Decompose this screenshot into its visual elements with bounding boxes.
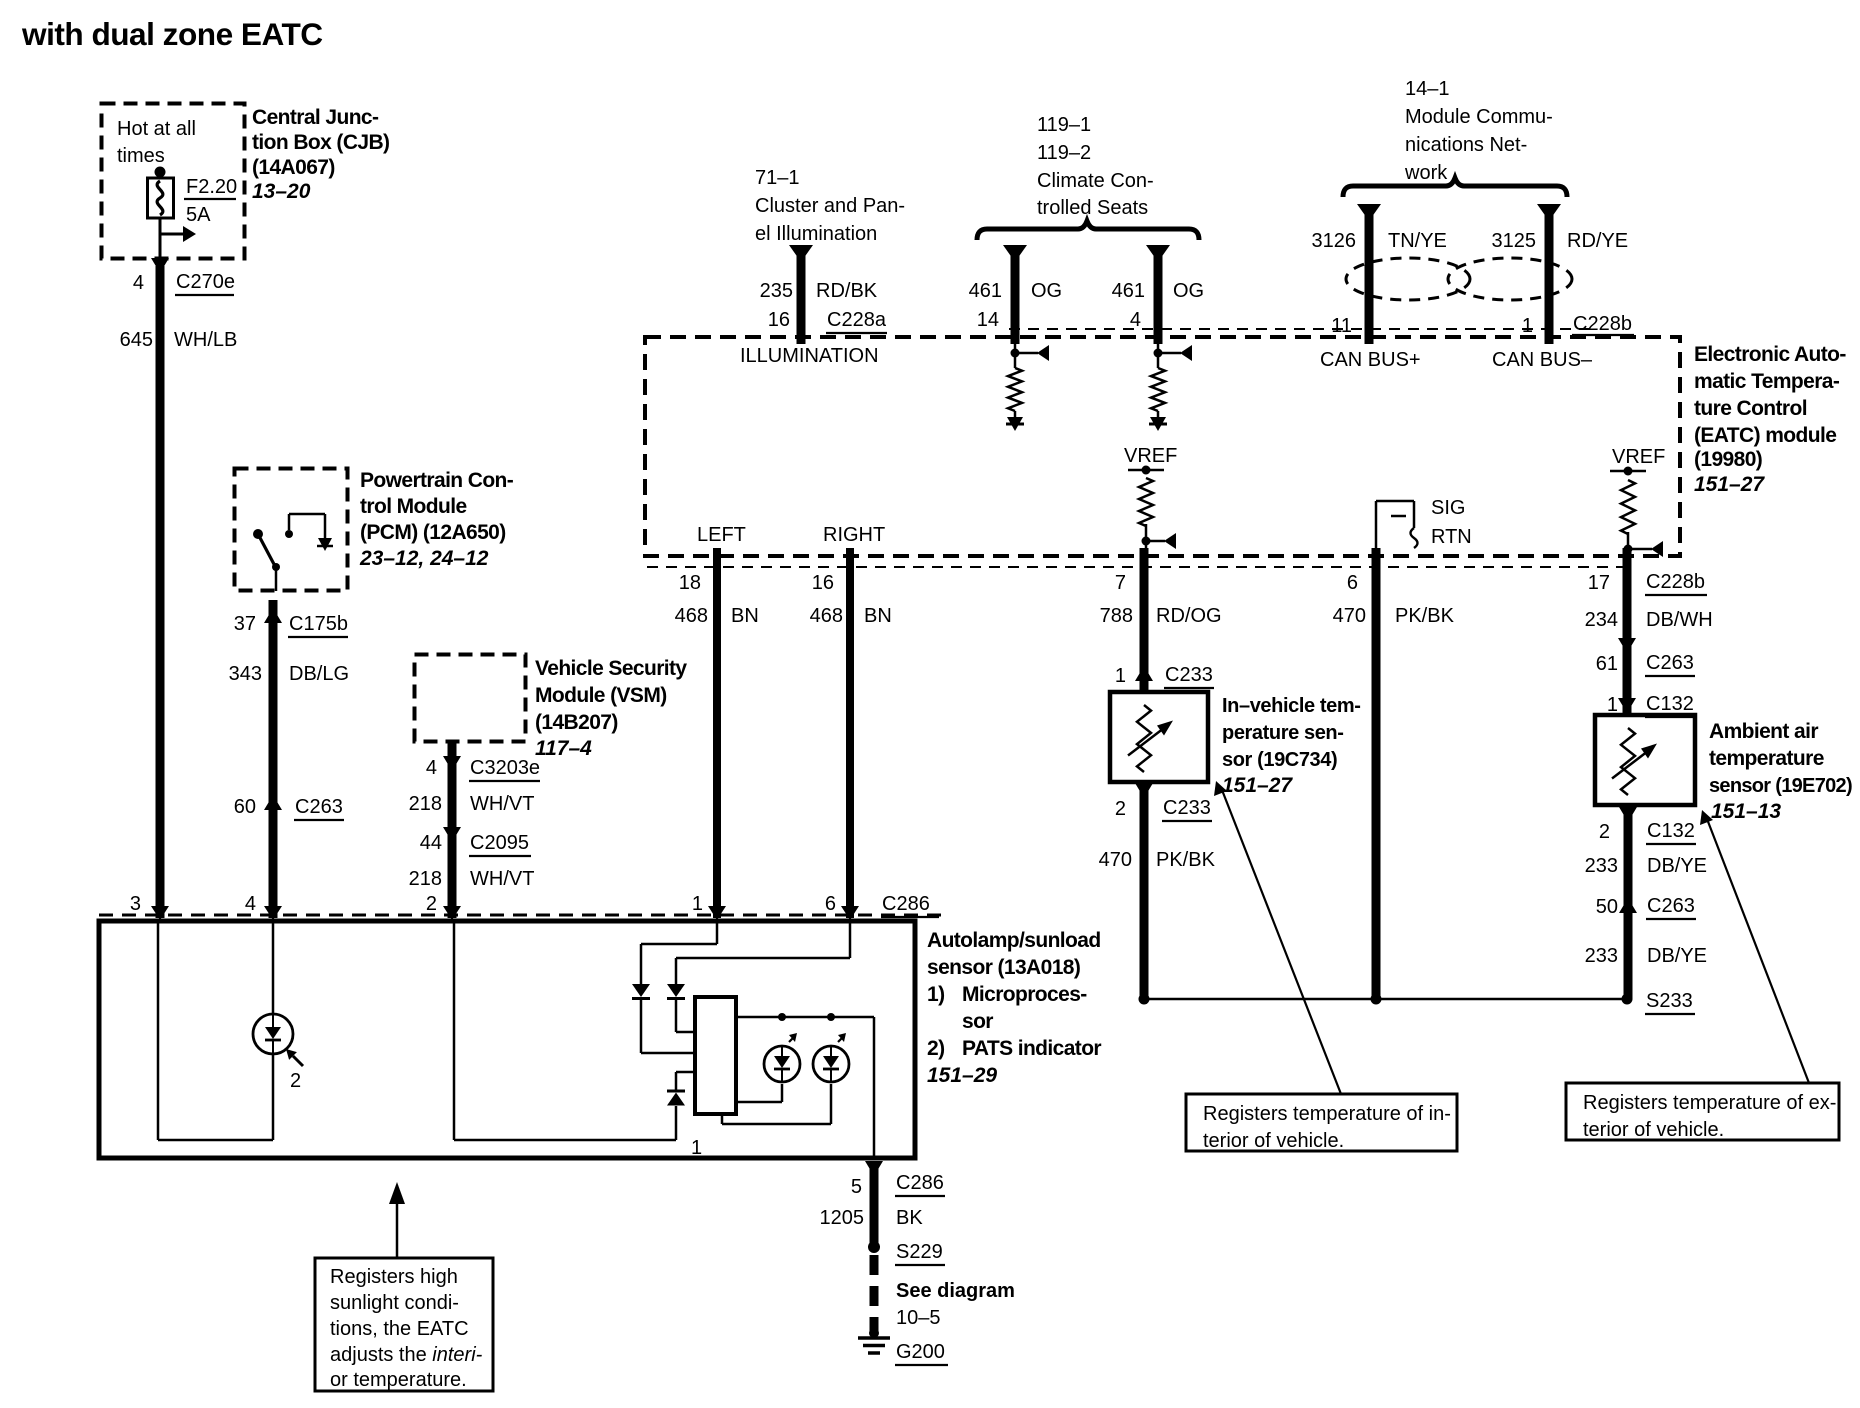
svg-text:S229: S229 xyxy=(896,1241,943,1263)
svg-text:119–2: 119–2 xyxy=(1037,142,1091,164)
svg-text:C286: C286 xyxy=(882,893,930,915)
svg-text:VREF: VREF xyxy=(1124,445,1177,467)
svg-text:perature sen-: perature sen- xyxy=(1222,722,1344,744)
svg-text:Climate Con-: Climate Con- xyxy=(1037,170,1154,192)
photodiode loop wires pins 3-4 xyxy=(157,921,160,1140)
svg-text:sor: sor xyxy=(962,1010,993,1033)
wire 645 WH/LB xyxy=(156,266,165,918)
svg-text:233: 233 xyxy=(1585,855,1618,877)
photodiode PATS indicator xyxy=(253,1014,293,1054)
svg-text:OG: OG xyxy=(1031,280,1062,302)
svg-text:2): 2) xyxy=(927,1037,944,1060)
svg-text:WH/VT: WH/VT xyxy=(470,793,534,815)
svg-text:WH/LB: WH/LB xyxy=(174,329,237,351)
svg-text:470: 470 xyxy=(1099,849,1132,871)
svg-text:71–1: 71–1 xyxy=(755,167,800,189)
svg-text:sensor (19E702): sensor (19E702) xyxy=(1709,775,1852,797)
svg-text:sor (19C734): sor (19C734) xyxy=(1222,749,1337,771)
module EATC dashed box (Electronic Automatic Temperature Control) xyxy=(645,337,1680,556)
wire 461 OG left (pin 14) xyxy=(1003,245,1027,262)
callout registers high sunlight xyxy=(396,1203,399,1258)
svg-text:trolled Seats: trolled Seats xyxy=(1037,197,1148,219)
svg-text:645: 645 xyxy=(120,329,153,351)
splice S233 bus wire xyxy=(1144,998,1627,1001)
svg-text:OG: OG xyxy=(1173,280,1204,302)
LED indicator 2 xyxy=(813,1046,849,1082)
svg-text:WH/VT: WH/VT xyxy=(470,868,534,890)
wire to pin 5 xyxy=(873,1017,876,1158)
svg-text:Hot at all: Hot at all xyxy=(117,118,196,140)
microprocessor top feed wire xyxy=(736,1016,874,1019)
svg-text:37: 37 xyxy=(234,613,256,635)
svg-text:tion Box (CJB): tion Box (CJB) xyxy=(252,131,389,154)
svg-text:Vehicle Security: Vehicle Security xyxy=(535,657,687,680)
svg-text:F2.20: F2.20 xyxy=(186,176,237,198)
wire 3125 RD/YE (CAN-) xyxy=(1537,204,1561,221)
fuse F2.20 5A xyxy=(155,167,166,178)
svg-text:ILLUMINATION: ILLUMINATION xyxy=(740,345,879,367)
svg-text:1: 1 xyxy=(691,1137,702,1159)
svg-text:C228a: C228a xyxy=(827,309,887,331)
svg-text:matic Tempera-: matic Tempera- xyxy=(1694,370,1840,393)
in-vehicle temperature sensor box 19C734 xyxy=(1110,692,1208,782)
svg-text:SIG: SIG xyxy=(1431,497,1465,519)
svg-text:Autolamp/sunload: Autolamp/sunload xyxy=(927,929,1101,952)
svg-text:233: 233 xyxy=(1585,945,1618,967)
svg-text:PATS indicator: PATS indicator xyxy=(962,1037,1101,1060)
svg-text:23–12, 24–12: 23–12, 24–12 xyxy=(359,547,489,570)
svg-text:18: 18 xyxy=(679,572,701,594)
wire 1205 BK xyxy=(870,1168,879,1247)
svg-text:Central Junc-: Central Junc- xyxy=(252,106,379,129)
svg-text:1205: 1205 xyxy=(820,1207,865,1229)
connector C132 pin 1 xyxy=(1618,698,1636,713)
svg-text:with dual zone EATC: with dual zone EATC xyxy=(21,16,323,52)
svg-text:234: 234 xyxy=(1585,609,1618,631)
svg-text:DB/YE: DB/YE xyxy=(1647,855,1707,877)
SIG RTN symbol at pin 6 xyxy=(1375,501,1378,556)
svg-text:44: 44 xyxy=(420,832,442,854)
svg-text:50: 50 xyxy=(1596,896,1618,918)
svg-text:sensor (13A018): sensor (13A018) xyxy=(927,956,1080,979)
brace over CAN wires xyxy=(1343,178,1567,197)
svg-text:C286: C286 xyxy=(896,1172,944,1194)
svg-text:C3203e: C3203e xyxy=(470,757,540,779)
svg-text:235: 235 xyxy=(760,280,793,302)
svg-text:C263: C263 xyxy=(1646,652,1694,674)
svg-text:13–20: 13–20 xyxy=(252,180,311,203)
svg-text:2: 2 xyxy=(290,1070,301,1092)
svg-text:(19980): (19980) xyxy=(1694,448,1762,471)
connector C270e pin 4 xyxy=(151,258,169,273)
svg-text:sunlight condi-: sunlight condi- xyxy=(330,1292,459,1314)
svg-text:el Illumination: el Illumination xyxy=(755,223,877,245)
wire from pin 2 of C286 xyxy=(453,921,456,1140)
svg-text:6: 6 xyxy=(825,893,836,915)
svg-text:Registers temperature of ex-: Registers temperature of ex- xyxy=(1583,1092,1836,1114)
svg-text:C132: C132 xyxy=(1647,820,1695,842)
svg-text:CAN BUS–: CAN BUS– xyxy=(1492,349,1593,371)
svg-text:CAN BUS+: CAN BUS+ xyxy=(1320,349,1421,371)
svg-text:470: 470 xyxy=(1333,605,1366,627)
svg-text:C233: C233 xyxy=(1163,797,1211,819)
ambient air temperature sensor box 19E702 xyxy=(1595,715,1695,805)
connector C132 pin 2 xyxy=(1619,807,1637,822)
LED return wires xyxy=(781,1084,784,1102)
svg-text:Ambient air: Ambient air xyxy=(1709,720,1818,743)
svg-text:VREF: VREF xyxy=(1612,446,1665,468)
svg-text:Module (VSM): Module (VSM) xyxy=(535,684,667,707)
connector C233 pin 1 xyxy=(1135,666,1153,681)
wire 470 PK/BK from sensor xyxy=(1140,783,1149,999)
svg-text:5A: 5A xyxy=(186,204,211,226)
svg-text:adjusts the interi-: adjusts the interi- xyxy=(330,1344,483,1366)
svg-text:788: 788 xyxy=(1100,605,1133,627)
svg-text:11: 11 xyxy=(1331,315,1352,337)
connector C286 dashed line xyxy=(99,914,945,917)
svg-text:C263: C263 xyxy=(295,796,343,818)
svg-text:C132: C132 xyxy=(1646,693,1694,715)
svg-text:temperature: temperature xyxy=(1709,747,1824,770)
wire 343 DB/LG xyxy=(269,600,278,918)
wire 468 BN pin 16 RIGHT xyxy=(846,548,854,918)
svg-text:TN/YE: TN/YE xyxy=(1388,230,1447,252)
svg-text:ture Control: ture Control xyxy=(1694,397,1807,420)
svg-text:S233: S233 xyxy=(1646,990,1693,1012)
svg-text:(14A067): (14A067) xyxy=(252,156,335,179)
diode D2 xyxy=(667,984,685,997)
svg-text:RIGHT: RIGHT xyxy=(823,524,885,546)
connector C2095 pin 44 xyxy=(443,827,461,842)
svg-text:Module Commu-: Module Commu- xyxy=(1405,106,1553,128)
svg-text:2: 2 xyxy=(1115,798,1126,820)
svg-text:119–1: 119–1 xyxy=(1037,114,1091,136)
svg-text:G200: G200 xyxy=(896,1341,945,1363)
svg-text:218: 218 xyxy=(409,868,442,890)
svg-text:BK: BK xyxy=(896,1207,923,1229)
sunload wires from pins 1 and 6 xyxy=(716,921,719,944)
microprocessor box xyxy=(695,997,736,1114)
svg-text:7: 7 xyxy=(1115,572,1126,594)
svg-text:work: work xyxy=(1404,162,1448,184)
svg-text:DB/LG: DB/LG xyxy=(289,663,349,685)
svg-text:2: 2 xyxy=(426,893,437,915)
svg-text:468: 468 xyxy=(810,605,843,627)
connector C263 pin 61 xyxy=(1618,638,1636,653)
svg-text:C175b: C175b xyxy=(289,613,348,635)
svg-text:3125: 3125 xyxy=(1492,230,1537,252)
svg-text:C263: C263 xyxy=(1647,895,1695,917)
pin arrows into sunload sensor xyxy=(151,906,169,920)
svg-text:1: 1 xyxy=(1607,694,1618,716)
module CJB dashed box (Central Junction Box) xyxy=(102,104,245,259)
callout registers exterior temperature xyxy=(1707,819,1809,1083)
svg-text:nications Net-: nications Net- xyxy=(1405,134,1527,156)
internal resistor under pin 4 xyxy=(1157,337,1160,368)
svg-text:(PCM) (12A650): (PCM) (12A650) xyxy=(360,521,506,544)
wire 468 BN pin 18 LEFT xyxy=(713,548,721,918)
svg-text:terior of vehicle.: terior of vehicle. xyxy=(1203,1130,1344,1152)
svg-text:16: 16 xyxy=(768,309,790,331)
svg-text:C228b: C228b xyxy=(1646,571,1705,593)
svg-text:BN: BN xyxy=(864,605,892,627)
svg-text:4: 4 xyxy=(245,893,256,915)
wire 233 DB/YE upper xyxy=(1624,805,1633,999)
module PCM dashed box (Powertrain Control Module) xyxy=(235,469,348,591)
svg-text:1: 1 xyxy=(1115,665,1126,687)
module VSM dashed box (Vehicle Security Module) xyxy=(415,655,526,742)
svg-text:PK/BK: PK/BK xyxy=(1156,849,1216,871)
svg-text:Microproces-: Microproces- xyxy=(962,983,1087,1006)
ground G200 xyxy=(858,1336,890,1340)
wire 470 PK/BK pin 6 SIG RTN xyxy=(1372,548,1381,999)
wire 218 WH/VT upper xyxy=(448,741,457,918)
svg-text:C270e: C270e xyxy=(176,271,235,293)
connector C3203e pin 4 xyxy=(443,756,461,771)
svg-text:218: 218 xyxy=(409,793,442,815)
LED indicator 1 xyxy=(764,1046,800,1082)
svg-text:2: 2 xyxy=(1599,821,1610,843)
svg-text:C233: C233 xyxy=(1165,664,1213,686)
brace over climate seat wires xyxy=(977,221,1199,240)
callout registers interior temperature xyxy=(1222,790,1341,1094)
svg-text:C228b: C228b xyxy=(1573,313,1632,335)
connector thin dashed line bottom xyxy=(647,566,1630,568)
svg-text:BN: BN xyxy=(731,605,759,627)
svg-text:343: 343 xyxy=(229,663,262,685)
connector C263 pin 60 xyxy=(264,795,282,810)
svg-text:Electronic Auto-: Electronic Auto- xyxy=(1694,343,1846,366)
diode D1 xyxy=(632,984,650,997)
svg-text:C2095: C2095 xyxy=(470,832,529,854)
internal resistor under pin 14 xyxy=(1014,337,1017,368)
svg-text:4: 4 xyxy=(1130,309,1141,331)
connector C286 pin 5 xyxy=(865,1161,883,1176)
svg-text:tions, the EATC: tions, the EATC xyxy=(330,1318,469,1340)
svg-text:terior of vehicle.: terior of vehicle. xyxy=(1583,1119,1724,1141)
connector thin dashed line top (C228b) xyxy=(1009,328,1598,330)
svg-text:151–27: 151–27 xyxy=(1222,774,1293,797)
switch inside PCM xyxy=(253,529,263,539)
svg-text:60: 60 xyxy=(234,796,256,818)
svg-text:or temperature.: or temperature. xyxy=(330,1369,467,1391)
autolamp/sunload sensor box 13A018 xyxy=(99,921,915,1158)
connector C175b pin 37 xyxy=(264,608,282,623)
svg-text:RD/OG: RD/OG xyxy=(1156,605,1222,627)
svg-text:Registers temperature of in-: Registers temperature of in- xyxy=(1203,1103,1451,1125)
svg-text:In–vehicle tem-: In–vehicle tem- xyxy=(1222,695,1361,717)
svg-text:1: 1 xyxy=(1522,315,1533,337)
connector C233 pin 2 xyxy=(1135,783,1153,798)
wire to ground dashed xyxy=(870,1255,879,1334)
svg-text:16: 16 xyxy=(812,572,834,594)
svg-text:3126: 3126 xyxy=(1312,230,1357,252)
svg-text:4: 4 xyxy=(133,272,144,294)
svg-text:Powertrain Con-: Powertrain Con- xyxy=(360,469,514,492)
svg-text:DB/WH: DB/WH xyxy=(1646,609,1713,631)
svg-text:Cluster and Pan-: Cluster and Pan- xyxy=(755,195,905,217)
wire 235 RD/BK from cluster xyxy=(789,245,813,262)
svg-text:151–27: 151–27 xyxy=(1694,473,1765,496)
svg-text:LEFT: LEFT xyxy=(697,524,746,546)
svg-text:1): 1) xyxy=(927,983,944,1006)
svg-text:RD/YE: RD/YE xyxy=(1567,230,1628,252)
svg-text:4: 4 xyxy=(426,757,437,779)
wire 461 OG right (pin 4) xyxy=(1146,245,1170,262)
wire 3126 TN/YE (CAN+) xyxy=(1357,204,1381,221)
twisted pair symbol xyxy=(1346,258,1470,300)
svg-text:DB/YE: DB/YE xyxy=(1647,945,1707,967)
svg-text:117–4: 117–4 xyxy=(535,737,592,760)
svg-text:17: 17 xyxy=(1588,572,1610,594)
svg-text:(EATC) module: (EATC) module xyxy=(1694,424,1836,447)
svg-text:3: 3 xyxy=(130,893,141,915)
svg-text:times: times xyxy=(117,145,165,167)
splice S229 xyxy=(868,1241,880,1253)
svg-text:5: 5 xyxy=(851,1176,862,1198)
svg-text:RTN: RTN xyxy=(1431,526,1472,548)
svg-text:151–29: 151–29 xyxy=(927,1064,997,1087)
svg-text:14–1: 14–1 xyxy=(1405,78,1450,100)
svg-text:461: 461 xyxy=(1112,280,1145,302)
svg-text:RD/BK: RD/BK xyxy=(816,280,878,302)
svg-text:151–13: 151–13 xyxy=(1711,800,1781,823)
svg-text:468: 468 xyxy=(675,605,708,627)
diode D3 to pin 2 net xyxy=(676,1071,695,1074)
wire 234 DB/WH pin 17 xyxy=(1623,548,1632,715)
svg-text:(14B207): (14B207) xyxy=(535,711,618,734)
connector C263 pin 50 xyxy=(1619,898,1637,913)
svg-text:10–5: 10–5 xyxy=(896,1307,941,1329)
svg-text:6: 6 xyxy=(1347,572,1358,594)
svg-text:1: 1 xyxy=(692,893,703,915)
wire fuse output with branch arrow xyxy=(159,218,162,262)
svg-text:PK/BK: PK/BK xyxy=(1395,605,1455,627)
svg-text:Registers high: Registers high xyxy=(330,1266,458,1288)
wire 788 RD/OG pin 7 xyxy=(1140,548,1149,694)
svg-text:14: 14 xyxy=(977,309,999,331)
svg-text:61: 61 xyxy=(1596,653,1618,675)
svg-text:461: 461 xyxy=(969,280,1002,302)
svg-text:trol Module: trol Module xyxy=(360,495,467,518)
svg-text:See diagram: See diagram xyxy=(896,1280,1015,1302)
